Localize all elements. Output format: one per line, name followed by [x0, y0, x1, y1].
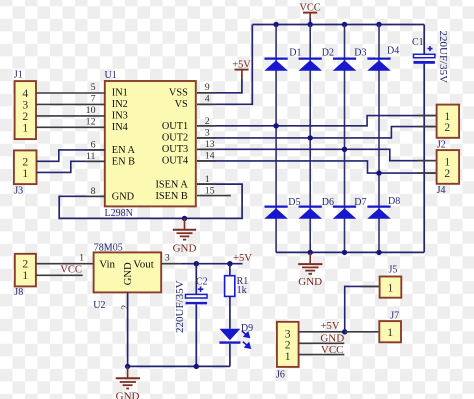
ground symbol (lower bus)	[298, 252, 322, 288]
wire J6.2 GND stub	[299, 342, 345, 344]
svg-text:U1: U1	[105, 70, 117, 81]
svg-text:14: 14	[205, 151, 215, 162]
wire D3 column	[344, 25, 346, 253]
svg-text:GND: GND	[112, 191, 135, 202]
svg-text:15: 15	[205, 185, 215, 196]
svg-text:1k: 1k	[237, 285, 247, 296]
wire OUT1 to J2.1	[197, 116, 437, 126]
wire J8.2 to U2 Vin	[36, 263, 94, 265]
svg-text:1: 1	[79, 253, 84, 264]
connector J4	[437, 150, 460, 196]
svg-text:U2: U2	[93, 300, 105, 311]
power symbol +5V (to VSS pin9)	[232, 60, 251, 79]
svg-text:VCC: VCC	[60, 264, 82, 275]
connector J1	[14, 70, 36, 140]
pin stub J5 (gray)	[361, 285, 380, 287]
svg-text:GND: GND	[298, 276, 322, 288]
svg-text:220UF/35V: 220UF/35V	[437, 31, 449, 84]
diode D2	[298, 48, 334, 71]
svg-text:GND: GND	[320, 332, 344, 344]
node bus-D1	[273, 22, 278, 27]
svg-text:11: 11	[86, 151, 96, 162]
svg-text:EN A: EN A	[112, 145, 136, 156]
node R1 tap	[227, 261, 232, 266]
svg-text:D7: D7	[354, 197, 366, 208]
wire U2 GND column + bottom bus	[127, 292, 129, 366]
node +5V junction	[342, 329, 347, 334]
diode D3	[333, 48, 367, 71]
svg-text:3: 3	[205, 127, 210, 138]
wire OUT2 to J2.2	[197, 127, 437, 138]
svg-text:1: 1	[22, 269, 28, 282]
wire J6.3 +5V to junction	[299, 331, 345, 333]
svg-text:OUT4: OUT4	[162, 156, 188, 167]
wire J1.2-IN3	[36, 115, 105, 117]
ground symbol (U2)	[116, 366, 140, 399]
svg-text:IN2: IN2	[112, 99, 128, 110]
node C2 tap	[194, 261, 199, 266]
ground symbol (U1)	[173, 218, 197, 254]
node bus2-D2	[308, 250, 313, 255]
svg-text:D4: D4	[387, 46, 399, 57]
svg-text:ISEN A: ISEN A	[155, 180, 188, 191]
svg-text:IN1: IN1	[112, 88, 128, 99]
wire D1 column	[275, 25, 277, 253]
connector J2	[437, 105, 460, 151]
capacitor C2	[174, 264, 208, 367]
svg-text:D8: D8	[388, 196, 400, 207]
pin stubs U1 left (gray)	[86, 150, 105, 196]
connector J6	[276, 322, 299, 381]
svg-text:Vin: Vin	[99, 259, 115, 271]
wire lower GND bus	[276, 251, 424, 253]
diode D6	[298, 197, 334, 219]
svg-text:Vout: Vout	[133, 259, 154, 271]
connector J3	[14, 150, 37, 196]
svg-text:GND: GND	[173, 243, 197, 255]
node OUT3-D3	[342, 147, 347, 152]
wire junction up to J5	[345, 286, 380, 331]
svg-text:OUT2: OUT2	[162, 133, 188, 144]
svg-text:4: 4	[205, 94, 210, 105]
svg-text:1: 1	[387, 326, 393, 339]
diode D7	[333, 197, 367, 219]
diode D8	[367, 196, 400, 219]
svg-text:J2: J2	[437, 140, 446, 151]
connector J8	[14, 254, 36, 298]
svg-text:IN3: IN3	[112, 111, 128, 122]
pin number labels U1 left	[86, 82, 96, 197]
wire J6.1 VCC stub	[299, 354, 345, 356]
pin number labels U1 right	[205, 82, 215, 196]
diode D1	[264, 48, 301, 71]
svg-text:VCC: VCC	[321, 344, 344, 356]
node bus-D4	[376, 22, 381, 27]
wire U2 Vout +5V run	[161, 263, 180, 265]
wire OUT4 to J4.2	[197, 161, 437, 173]
wire J1.3-IN2	[36, 103, 105, 105]
svg-text:D3: D3	[354, 48, 366, 59]
svg-text:2: 2	[120, 305, 131, 310]
node GND tap	[182, 216, 187, 221]
svg-text:J1: J1	[14, 70, 23, 81]
node bus-D3	[342, 22, 347, 27]
svg-text:+5V: +5V	[321, 321, 340, 332]
svg-text:78M05: 78M05	[94, 242, 123, 253]
wire VCC top bus	[252, 24, 424, 26]
node OUT2-D2	[308, 135, 313, 140]
wire J8.1 VCC stub	[36, 274, 83, 276]
svg-text:GND: GND	[116, 390, 140, 399]
svg-text:VS: VS	[175, 99, 188, 110]
node OUT4-D4	[376, 170, 381, 175]
svg-text:9: 9	[205, 82, 210, 93]
wire VSS pin9 run	[197, 79, 242, 93]
svg-text:12: 12	[86, 117, 96, 128]
wire J1.1-IN4	[36, 126, 105, 128]
node C2 bottom	[194, 364, 199, 369]
node OUT1-D1	[273, 123, 278, 128]
node bus-VCC/D2	[308, 22, 313, 27]
svg-text:J4: J4	[437, 185, 446, 196]
svg-text:D1: D1	[289, 48, 301, 59]
capacitor C1	[412, 25, 449, 253]
node U2 gnd	[125, 364, 130, 369]
node bus2-D4	[376, 250, 381, 255]
IC U1 L298N	[105, 70, 196, 219]
wire EN B to J3.1	[37, 161, 105, 172]
svg-text:J6: J6	[276, 370, 285, 381]
wire EN A to J3.2	[37, 150, 105, 161]
svg-text:2: 2	[444, 167, 450, 180]
svg-text:J7: J7	[390, 310, 399, 321]
svg-text:D2: D2	[322, 48, 334, 59]
wire J1.4-IN1	[36, 92, 105, 94]
svg-text:3: 3	[165, 253, 170, 264]
connector J5	[380, 264, 402, 297]
svg-text:J8: J8	[14, 287, 23, 298]
regulator U2 78M05	[93, 242, 161, 311]
power symbol VCC	[299, 3, 320, 25]
wire D4 column	[378, 25, 380, 253]
wire D2 column	[309, 25, 311, 253]
pin stubs U1 right (gray)	[197, 93, 216, 184]
svg-text:10: 10	[86, 105, 96, 116]
connector J7	[379, 310, 401, 342]
svg-text:7: 7	[91, 94, 96, 105]
diode D4	[367, 46, 399, 71]
svg-text:OUT1: OUT1	[162, 121, 188, 132]
svg-text:J3: J3	[14, 185, 23, 196]
svg-text:6: 6	[91, 140, 96, 151]
wire ISEN B stub	[197, 195, 231, 197]
node bus2-D3	[342, 250, 347, 255]
svg-text:2: 2	[444, 121, 450, 134]
svg-text:1: 1	[22, 167, 28, 180]
svg-text:13: 13	[205, 139, 215, 150]
svg-text:1: 1	[388, 282, 394, 295]
wire OUT3 to J4.1	[197, 149, 437, 160]
wire VS column (bus left end down to pin4)	[197, 25, 252, 105]
svg-text:C1: C1	[412, 37, 424, 48]
wire junction to J7	[345, 331, 380, 333]
svg-text:EN B: EN B	[112, 156, 135, 167]
svg-text:OUT3: OUT3	[162, 144, 188, 155]
svg-text:8: 8	[91, 186, 96, 197]
svg-text:IN4: IN4	[112, 122, 128, 133]
svg-text:D6: D6	[322, 197, 334, 208]
diode D5	[264, 197, 300, 219]
svg-text:ISEN B: ISEN B	[155, 191, 187, 202]
svg-text:5: 5	[91, 82, 96, 93]
svg-text:220UF/35V: 220UF/35V	[174, 280, 186, 333]
svg-text:1: 1	[285, 350, 291, 363]
pin stubs J2/J4 (gray)	[418, 116, 437, 174]
svg-text:J5: J5	[389, 264, 398, 275]
LED D9	[219, 323, 253, 367]
wire GND pin8	[59, 184, 242, 218]
svg-text:C2: C2	[196, 276, 208, 287]
svg-text:1: 1	[22, 122, 28, 135]
svg-text:+5V: +5V	[233, 253, 252, 264]
resistor R1	[225, 264, 249, 329]
svg-text:VSS: VSS	[169, 88, 188, 99]
